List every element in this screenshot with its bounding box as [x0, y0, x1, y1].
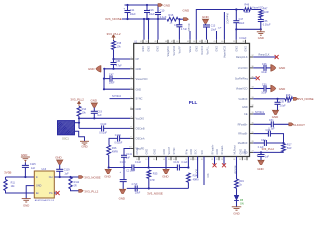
U1 left pin VtuneVCO: [130, 78, 134, 80]
svg-text:C131: C131: [173, 161, 179, 164]
capacitor C16: [146, 5, 148, 11]
wire R17 to MuxBUF row: [283, 151, 285, 154]
capacitor C17 loop: [235, 10, 237, 21]
U1 right pin GND: [250, 151, 254, 153]
svg-text:6: 6: [130, 107, 131, 109]
svg-text:2: 2: [130, 67, 131, 69]
port CLKOUT: [289, 123, 294, 126]
U1 right pin RFoutB-: [250, 133, 254, 135]
capacitor C119: [59, 165, 61, 170]
U1 bottom pin MUXout: [236, 157, 238, 161]
svg-text:19: 19: [194, 159, 196, 161]
svg-text:GND: GND: [279, 87, 285, 91]
power port GND C117: [258, 160, 264, 164]
svg-text:10uF: 10uF: [261, 71, 267, 74]
resistor R26: [107, 145, 111, 155]
svg-text:PG: PG: [49, 192, 53, 195]
svg-text:MUXout: MUXout: [233, 165, 236, 174]
wire CE pin: [253, 113, 265, 115]
svg-text:3V3_NOISE: 3V3_NOISE: [84, 176, 100, 180]
wire pin GND1 to rail: [143, 19, 145, 40]
wire GND pin of LDO: [26, 186, 34, 199]
U1 bottom pin CPout: [138, 157, 140, 161]
wire R35 to noise rail: [148, 178, 150, 188]
svg-text:R15: R15: [117, 42, 122, 45]
svg-text:1.0uF: 1.0uF: [280, 104, 287, 107]
svg-text:49R9: 49R9: [193, 178, 200, 181]
svg-text:3V3_NOISE: 3V3_NOISE: [298, 97, 314, 101]
svg-text:45: 45: [187, 41, 189, 43]
svg-text:RampCLK: RampCLK: [236, 56, 248, 59]
resistor R34: [187, 173, 191, 182]
svg-text:0.1uF: 0.1uF: [160, 15, 167, 19]
U1 bottom pin RFoutA+: [214, 157, 216, 161]
U1 left pin GND: [130, 88, 134, 90]
svg-text:VtuneVCO: VtuneVCO: [226, 13, 229, 24]
svg-text:SDI: SDI: [206, 174, 208, 178]
node C47 branch: [103, 78, 105, 80]
wire MUXout pin down: [236, 157, 238, 180]
svg-text:C16: C16: [149, 8, 154, 12]
svg-text:R17: R17: [287, 143, 292, 146]
capacitor C45: [113, 59, 115, 63]
svg-text:R46: R46: [245, 3, 250, 6]
wire GND pin row y89.2: [103, 88, 105, 90]
wire charge pump to loop filter: [196, 10, 236, 40]
capacitor C13: [205, 24, 207, 25]
svg-text:GND: GND: [136, 88, 142, 91]
U1 left pin GND: [130, 68, 134, 70]
svg-text:SYNC1: SYNC1: [255, 110, 264, 114]
wire pin 190 stub up: [189, 31, 191, 40]
resistor R47: [259, 10, 263, 17]
power port GND below rail: [105, 169, 111, 173]
svg-text:GND: GND: [242, 152, 248, 155]
U1 top pin VtuneVCO: [223, 40, 225, 44]
resistor R14: [77, 106, 81, 116]
svg-text:GND: GND: [279, 66, 285, 70]
wire osc pin2 to ground: [75, 131, 85, 141]
wire R112 to PLL2 port: [71, 189, 79, 191]
wire R34 to noise rail: [187, 182, 189, 188]
no connect X bottom pin A: [214, 157, 216, 165]
U1 right pin SysRefReq: [250, 77, 254, 79]
svg-text:VccDIG: VccDIG: [136, 117, 145, 120]
svg-text:10uF: 10uF: [109, 82, 115, 85]
U1 bottom pin GND: [241, 157, 243, 161]
ground GND LDO: [22, 198, 31, 200]
svg-text:R34: R34: [193, 174, 198, 177]
ground GND oscillator: [80, 140, 89, 142]
svg-text:32: 32: [252, 105, 254, 107]
resistor R112: [69, 177, 72, 189]
U1 top pin VccVCO: [173, 40, 175, 44]
wire 3V3B to In pin: [6, 176, 35, 178]
svg-text:GND: GND: [142, 46, 145, 52]
svg-text:GND: GND: [148, 46, 151, 52]
svg-text:10k: 10k: [82, 112, 87, 115]
svg-text:R35: R35: [153, 173, 158, 176]
svg-text:20: 20: [201, 159, 203, 161]
svg-text:46: 46: [176, 41, 178, 43]
wire VccBUF supply row: [253, 98, 285, 100]
svg-text:GND: GND: [36, 185, 42, 188]
svg-text:10uF: 10uF: [149, 12, 155, 16]
svg-text:RFoutA+: RFoutA+: [212, 144, 215, 154]
svg-text:C115: C115: [30, 163, 36, 166]
svg-text:C45: C45: [116, 60, 121, 63]
svg-text:110R: 110R: [263, 11, 269, 14]
wire rail to RFoutA pin: [134, 167, 178, 169]
capacitor C26: [253, 67, 264, 69]
port 3V3_PLL2 out: [79, 189, 84, 192]
svg-text:PLL: PLL: [189, 100, 198, 105]
svg-text:GND: GND: [119, 196, 125, 200]
U1 bottom pin RFoutA-: [223, 157, 225, 161]
svg-text:C30: C30: [262, 84, 267, 87]
svg-text:R18: R18: [286, 94, 291, 97]
svg-text:GN: GN: [240, 203, 244, 206]
svg-text:13: 13: [153, 159, 155, 161]
U1 left pin OSCinA: [130, 137, 134, 139]
U1 bottom pin SYNC: [175, 157, 177, 161]
svg-text:10k: 10k: [11, 185, 16, 188]
svg-text:C13: C13: [211, 25, 216, 28]
power port GND C35: [272, 110, 278, 114]
wire pin GND2 to rail: [148, 19, 150, 40]
svg-text:24: 24: [233, 159, 235, 161]
wire RFoutA pin down: [148, 157, 150, 168]
svg-text:25: 25: [239, 159, 241, 161]
capacitor C133 chain: [123, 168, 125, 180]
svg-text:U13: U13: [42, 168, 47, 171]
svg-text:GND: GND: [91, 98, 97, 102]
svg-text:49: 49: [154, 41, 156, 43]
svg-text:C119: C119: [64, 169, 70, 172]
svg-text:RFoutB-: RFoutB-: [238, 133, 247, 136]
no connect X bottom pin B: [223, 157, 225, 165]
svg-text:3V3_NOISE: 3V3_NOISE: [105, 17, 122, 21]
svg-text:VccBUF: VccBUF: [238, 98, 248, 101]
svg-text:GND: GND: [258, 36, 264, 40]
wire En pullup: [5, 177, 7, 180]
svg-text:Vtune: Vtune: [189, 45, 192, 52]
svg-text:1nF: 1nF: [126, 157, 131, 160]
oscillator X1 body: [58, 121, 75, 135]
resistor R18: [285, 97, 293, 101]
U1 left pin SYNC: [130, 98, 134, 100]
resistor R16: [167, 17, 178, 21]
svg-text:40: 40: [221, 41, 223, 43]
U1 top pin GND: [235, 40, 237, 44]
no connect X RampCLK: [275, 55, 279, 59]
svg-text:C130: C130: [120, 161, 126, 164]
U1 right pin VccVCO: [250, 67, 254, 69]
capacitor C31: [253, 123, 271, 125]
U1 right pin GND: [250, 106, 254, 108]
svg-text:0.1uF: 0.1uF: [181, 161, 188, 164]
svg-text:0R: 0R: [74, 185, 77, 188]
svg-text:18: 18: [190, 159, 192, 161]
svg-text:RFin: RFin: [185, 149, 188, 155]
svg-text:1uF: 1uF: [64, 172, 69, 175]
U1 top pin GND: [195, 40, 197, 44]
U1 bottom pin GND: [148, 157, 150, 161]
svg-text:8: 8: [130, 127, 131, 129]
svg-text:3V3B: 3V3B: [4, 171, 11, 175]
wire R11 to En pin: [6, 191, 35, 194]
capacitor C32: [253, 133, 268, 135]
resistor R35: [147, 170, 151, 178]
capacitor C47: [104, 78, 110, 80]
wire R14 to VccDIG net: [78, 116, 80, 118]
svg-text:RampCLK: RampCLK: [259, 53, 270, 56]
svg-text:C14: C14: [174, 24, 179, 27]
wire Out pin rail: [54, 176, 78, 178]
svg-text:CLKOUT: CLKOUT: [293, 123, 305, 127]
U1 left pin CP: [130, 58, 134, 60]
svg-text:4.7uF: 4.7uF: [181, 28, 188, 31]
capacitor C33: [253, 142, 264, 144]
resistor R11: [4, 180, 7, 191]
svg-text:1uF: 1uF: [31, 167, 36, 170]
U1 right pin RampCLK: [250, 56, 254, 58]
svg-text:1uF: 1uF: [265, 155, 270, 158]
U1 top pin VccRF: [178, 40, 180, 44]
svg-text:C36: C36: [263, 20, 268, 23]
capacitor C140: [117, 135, 119, 141]
U1 bottom pin SCK: [197, 157, 199, 161]
svg-text:4: 4: [130, 87, 131, 89]
wire R15 to CP pin: [113, 50, 115, 60]
svg-text:14: 14: [163, 159, 165, 161]
svg-text:GND: GND: [136, 108, 142, 111]
U1 top pin GND: [157, 40, 159, 44]
wire VccDIG row: [79, 117, 130, 119]
no connect X PG pin: [54, 192, 56, 194]
svg-text:GND: GND: [88, 67, 94, 71]
svg-text:MUXout: MUXout: [234, 145, 237, 154]
svg-text:SYNC: SYNC: [173, 147, 176, 154]
wire 3V3_NOISE bottom rail: [127, 187, 189, 189]
ground GND loop filter: [260, 29, 262, 32]
svg-text:R16: R16: [169, 13, 174, 17]
svg-text:GND: GND: [190, 149, 193, 155]
svg-text:VccRF: VccRF: [179, 46, 182, 54]
svg-text:21: 21: [211, 159, 213, 161]
svg-text:C141: C141: [126, 153, 132, 156]
capacitor C130 series: [131, 165, 133, 171]
svg-text:CE: CE: [244, 113, 248, 116]
U1 right pin VccBUF: [250, 98, 254, 100]
svg-text:0.01uF: 0.01uF: [239, 38, 247, 40]
svg-text:ADM7150ACPZ-3.3: ADM7150ACPZ-3.3: [35, 199, 55, 202]
svg-text:10uF: 10uF: [211, 28, 217, 31]
svg-text:1: 1: [130, 57, 131, 59]
U1 top pin VregVCC: [167, 40, 169, 44]
U1 top pin VccPLL: [207, 40, 209, 44]
svg-text:GND: GND: [163, 149, 166, 155]
power port GND left: [96, 66, 101, 73]
svg-text:10uF: 10uF: [135, 191, 141, 194]
wire LED to gnd: [236, 201, 238, 207]
svg-text:VtuneVCO: VtuneVCO: [224, 46, 227, 58]
wire C32 to R17 node: [270, 134, 283, 143]
svg-text:C33: C33: [261, 139, 266, 142]
svg-text:GND: GND: [23, 203, 29, 207]
svg-text:10uF: 10uF: [130, 12, 136, 16]
svg-text:3V3_PLL2: 3V3_PLL2: [262, 147, 275, 151]
svg-text:GND: GND: [104, 175, 110, 179]
svg-text:GND: GND: [55, 155, 61, 159]
svg-text:R19: R19: [239, 180, 244, 183]
svg-text:VccCP: VccCP: [168, 147, 171, 155]
capacitor C134: [134, 185, 136, 191]
svg-text:7: 7: [130, 117, 131, 119]
svg-text:10uF: 10uF: [261, 91, 267, 94]
svg-text:Out: Out: [49, 176, 53, 179]
wire pin 216.5 stub: [216, 31, 218, 40]
resistor R17: [282, 144, 286, 152]
svg-text:GND: GND: [136, 68, 142, 71]
svg-text:3V3_NOISE: 3V3_NOISE: [147, 191, 163, 195]
svg-text:C11: C11: [130, 8, 135, 12]
resistor R19: [235, 179, 239, 188]
svg-text:C19: C19: [97, 110, 102, 113]
svg-text:GND: GND: [216, 149, 219, 155]
svg-text:4.7uF: 4.7uF: [131, 183, 138, 186]
svg-text:GND: GND: [21, 153, 27, 157]
svg-text:38: 38: [242, 41, 244, 43]
svg-text:GND: GND: [195, 46, 198, 52]
svg-text:VregVCC: VregVCC: [167, 46, 170, 57]
svg-text:SYNC2: SYNC2: [112, 94, 121, 98]
svg-text:C32: C32: [266, 129, 271, 132]
svg-text:43: 43: [199, 41, 201, 43]
svg-text:C2 10uF: C2 10uF: [126, 171, 135, 173]
U1 top pin GND: [148, 40, 150, 44]
svg-text:GND: GND: [183, 9, 191, 13]
ground GND LED: [232, 206, 242, 208]
resistor R15: [113, 40, 115, 41]
capacitor C141: [121, 154, 127, 156]
U1 right pin RFoutB+: [250, 123, 254, 125]
svg-text:10k: 10k: [245, 11, 250, 14]
svg-text:1k: 1k: [239, 184, 242, 187]
power port GND after R16: [183, 18, 188, 21]
svg-text:VccPLL: VccPLL: [207, 45, 210, 54]
regulator U13 body: [34, 171, 54, 198]
svg-text:SYNC: SYNC: [136, 98, 143, 101]
svg-text:49R9: 49R9: [112, 151, 119, 154]
wire pin GND top to ground line: [235, 29, 237, 39]
U1 right pin CE: [250, 113, 254, 115]
svg-text:GND: GND: [235, 46, 238, 52]
svg-text:26: 26: [244, 159, 246, 161]
svg-text:10k: 10k: [117, 46, 122, 49]
svg-text:VtuneVCO: VtuneVCO: [136, 78, 148, 81]
svg-text:GND: GND: [233, 212, 239, 216]
wire cap to R34 node: [180, 167, 189, 169]
svg-text:RFoutC: RFoutC: [187, 24, 190, 32]
svg-text:OSCinA: OSCinA: [136, 138, 145, 141]
capacitor C19: [93, 108, 95, 112]
svg-text:GND: GND: [242, 106, 248, 109]
svg-text:GND: GND: [162, 174, 168, 178]
wire left bus down: [103, 69, 105, 79]
svg-text:51R: 51R: [287, 147, 292, 150]
wire RFoutA2 pin down: [187, 157, 189, 168]
capacitor C10: [157, 5, 159, 13]
svg-text:OSCinB: OSCinB: [136, 128, 145, 131]
capacitor C30: [253, 88, 264, 90]
wire ground line loop filter: [236, 28, 260, 30]
node R16 output: [178, 18, 180, 20]
svg-text:CPout: CPout: [136, 147, 139, 154]
svg-text:GND: GND: [245, 46, 248, 52]
svg-text:R26: R26: [112, 147, 117, 150]
U1 bottom pin VccCP: [170, 157, 172, 161]
wire R26 to gnd rail: [108, 155, 110, 167]
svg-text:48: 48: [165, 41, 167, 43]
svg-text:GND: GND: [257, 167, 263, 171]
wire pin GND3 to cap C10: [157, 19, 159, 40]
U1 right pin VbiasVCO: [250, 88, 254, 90]
power port GND top rail: [158, 4, 163, 7]
svg-text:0.01uF: 0.01uF: [115, 142, 123, 145]
wire OSCinA row: [109, 138, 118, 145]
wire osc pin1 to supply: [75, 122, 80, 124]
svg-text:C35: C35: [280, 101, 285, 104]
svg-text:GND: GND: [216, 46, 219, 52]
svg-text:41: 41: [213, 41, 215, 43]
svg-text:OSC1: OSC1: [62, 137, 69, 140]
wire osc OSCin row: [79, 127, 102, 129]
wire MuxBUF pin row: [253, 151, 283, 153]
svg-text:+: +: [120, 171, 122, 174]
svg-text:C26: C26: [262, 63, 267, 66]
capacitor C117: [260, 152, 262, 154]
U1 bottom pin RFin: [187, 157, 189, 161]
svg-text:5: 5: [130, 97, 131, 99]
svg-text:R47: R47: [263, 7, 268, 10]
power port GND cap chain: [120, 189, 126, 193]
svg-text:47: 47: [171, 41, 173, 43]
svg-text:3: 3: [130, 77, 131, 79]
svg-text:0.01uF: 0.01uF: [263, 23, 271, 26]
svg-text:GND: GND: [157, 46, 160, 52]
svg-text:3V3_PLL2: 3V3_PLL2: [70, 98, 84, 102]
svg-text:3V3_PLL2: 3V3_PLL2: [84, 189, 98, 193]
power port GND bottom middle: [163, 169, 169, 173]
no connect X SysRefReq: [253, 77, 256, 79]
svg-text:0R: 0R: [287, 101, 290, 104]
wire GND row y68.8: [104, 68, 130, 70]
U1 left pin OSCinB: [130, 127, 134, 129]
power port GND C30: [271, 85, 276, 92]
node CP branch: [112, 58, 114, 60]
svg-text:VccVCO: VccVCO: [238, 67, 248, 70]
port 3V3_NOISE out: [79, 176, 84, 179]
wire cap bank top rail: [125, 4, 159, 6]
U1 bottom pin GND: [165, 157, 167, 161]
capacitor C11: [127, 5, 129, 11]
capacitor C35: [277, 99, 279, 103]
svg-text:39: 39: [233, 41, 235, 43]
LED D5: [234, 195, 239, 200]
U1 bottom pin SDI: [203, 157, 205, 161]
svg-text:51: 51: [140, 41, 142, 43]
